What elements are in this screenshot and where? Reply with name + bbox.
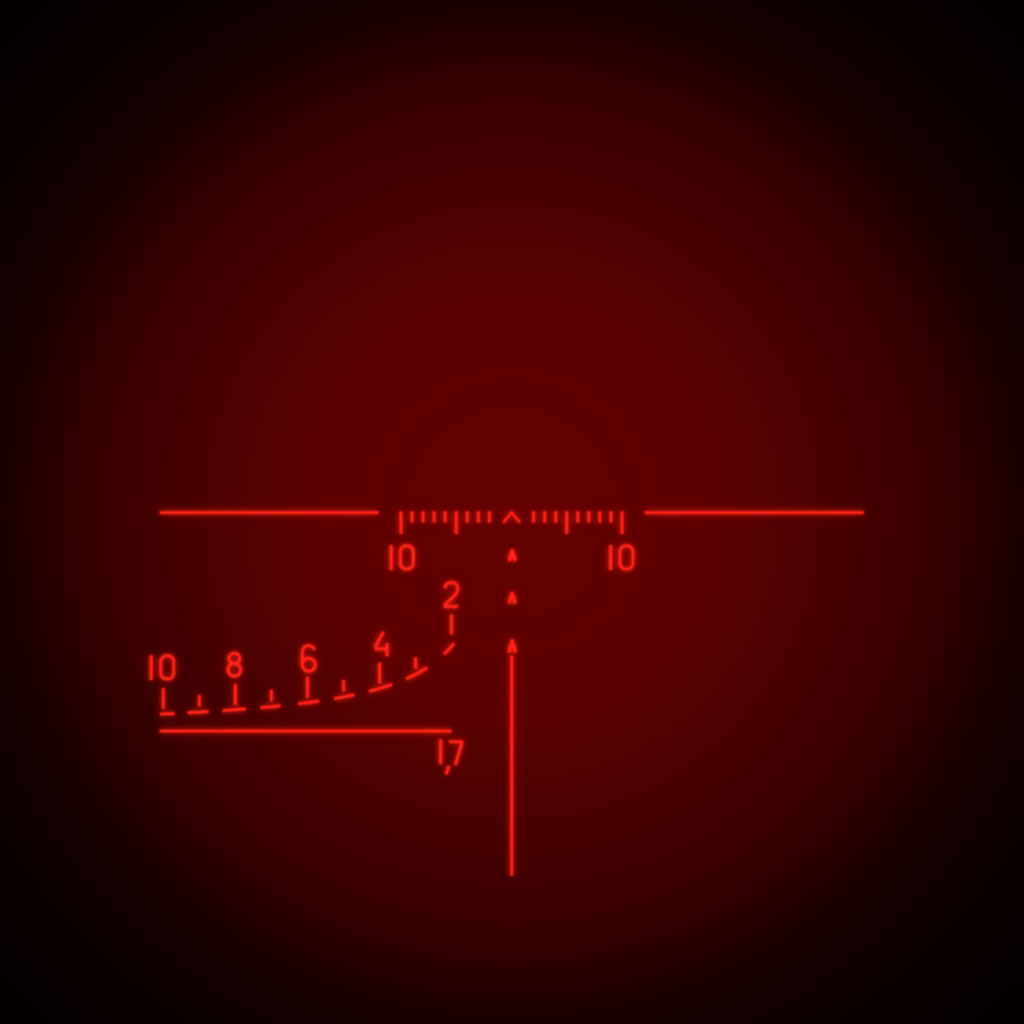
- reticle glow layer: [151, 511, 864, 875]
- reticle wide halo layer: [151, 511, 864, 875]
- reticle core layer: [151, 511, 864, 875]
